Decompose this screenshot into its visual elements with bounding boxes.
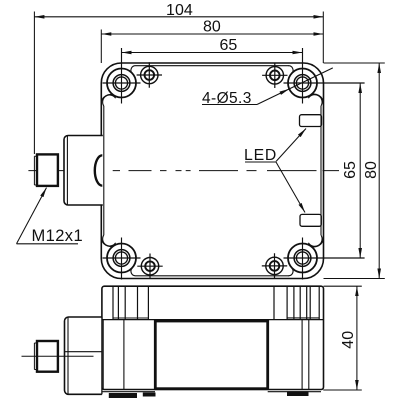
M12x1 underline bbox=[17, 243, 79, 245]
svg-text:80: 80 bbox=[363, 161, 380, 179]
hole BR centerlines + 65 extension bbox=[284, 238, 365, 280]
cover screw BR bbox=[262, 253, 287, 278]
dim 80 right bbox=[378, 63, 380, 279]
sensing face thick rect bbox=[155, 321, 267, 389]
horizontal centerline top view bbox=[28, 170, 339, 172]
svg-text:4-Ø5.3: 4-Ø5.3 bbox=[202, 90, 252, 107]
lid verticals left bbox=[113, 286, 148, 319]
side connector step line bbox=[65, 351, 102, 353]
body inner wall right bbox=[320, 106, 322, 235]
side connector housing bbox=[65, 317, 102, 394]
svg-text:M12x1: M12x1 bbox=[32, 227, 84, 245]
lower verticals bbox=[124, 320, 309, 390]
side outline bbox=[102, 286, 324, 389]
mounting hole BL boss bbox=[107, 244, 136, 273]
ext line body left top bbox=[100, 30, 102, 64]
cover screw TL bbox=[137, 62, 162, 87]
fillet neck TL left outer bbox=[101, 95, 114, 104]
svg-text:80: 80 bbox=[203, 18, 221, 35]
LED slot lower bbox=[300, 214, 321, 226]
mounting hole TL boss bbox=[107, 69, 136, 98]
body inner wall left bbox=[103, 106, 105, 235]
svg-text:104: 104 bbox=[166, 2, 193, 19]
connector nut top view bbox=[37, 154, 58, 186]
foot left bbox=[109, 393, 137, 398]
mounting hole BR boss bbox=[288, 244, 317, 273]
fillet neck BL left inner bbox=[103, 235, 116, 246]
dim 80 top bbox=[101, 33, 323, 35]
side lid parting line bbox=[102, 319, 324, 321]
connector housing top view bbox=[64, 136, 103, 206]
body inner wall top bbox=[136, 65, 290, 67]
svg-text:65: 65 bbox=[342, 161, 359, 179]
4-Ø5.3 leader bbox=[257, 68, 333, 105]
fillet neck TR right outer bbox=[309, 94, 323, 103]
M12x1 leader bbox=[17, 188, 47, 244]
hole TR centerlines + 65 extension bbox=[284, 48, 365, 104]
ext top for 40 bbox=[324, 285, 362, 287]
connector housing inner line bbox=[66, 136, 68, 206]
svg-text:40: 40 bbox=[340, 331, 357, 349]
body inner wall bottom bbox=[136, 275, 290, 277]
side centerline bbox=[22, 355, 94, 357]
foot right bbox=[287, 391, 309, 396]
side inner left line bbox=[102, 320, 104, 390]
ext line body bottom right bbox=[324, 278, 385, 280]
LED underline bbox=[245, 161, 276, 163]
dim 40 bbox=[356, 286, 358, 390]
dim 65 right bbox=[359, 83, 361, 258]
ext line body right top bbox=[322, 12, 324, 64]
svg-text:LED: LED bbox=[244, 147, 277, 164]
ext line body top right bbox=[324, 62, 385, 64]
nut right chamfer line bbox=[58, 156, 60, 185]
fillet TR top bbox=[289, 66, 294, 74]
fillet neck TR right inner bbox=[308, 95, 322, 106]
fillet neck BR right inner bbox=[308, 235, 322, 246]
dim 65 top bbox=[122, 52, 303, 54]
side connector housing inner line bbox=[67, 317, 69, 394]
hole TL centerlines bbox=[103, 48, 141, 104]
side nut left flange bbox=[34, 343, 37, 370]
fillet neck BL left outer bbox=[101, 237, 114, 246]
arrowhead for 4-Ø5.3 leader bbox=[280, 89, 290, 95]
mounting hole TR boss bbox=[288, 69, 317, 98]
lid boss bottom lines bbox=[113, 317, 319, 319]
dim 104 bbox=[34, 16, 323, 18]
fillet BL bottom bbox=[131, 268, 136, 276]
connector flange ellipse bbox=[95, 155, 102, 185]
hole BL centerlines bbox=[103, 238, 141, 280]
side nut bbox=[37, 341, 58, 372]
foot mid bbox=[143, 393, 156, 397]
LED leader to lower slot bbox=[276, 162, 305, 213]
fillet neck BR right outer bbox=[309, 237, 323, 246]
cover screw BL bbox=[137, 254, 162, 279]
nut left flange bbox=[34, 156, 37, 185]
svg-text:65: 65 bbox=[220, 37, 238, 54]
4-Ø5.3 underline bbox=[202, 104, 257, 106]
connector-body junction line bbox=[101, 317, 103, 394]
bottom second line bbox=[103, 391, 322, 393]
fillet neck TL left inner bbox=[103, 95, 116, 106]
LED slot upper bbox=[300, 115, 322, 127]
side nut right chamfer bbox=[58, 343, 60, 370]
fillet BR bottom bbox=[289, 268, 294, 276]
ext line left (nut tip) bbox=[33, 12, 35, 155]
lid verticals right bbox=[274, 286, 319, 319]
cover screw TR bbox=[262, 63, 287, 88]
body outer outline bbox=[101, 63, 323, 279]
ext bottom for 40 bbox=[323, 389, 362, 391]
LED leader to upper slot bbox=[276, 129, 306, 162]
fillet TL top bbox=[131, 66, 136, 74]
